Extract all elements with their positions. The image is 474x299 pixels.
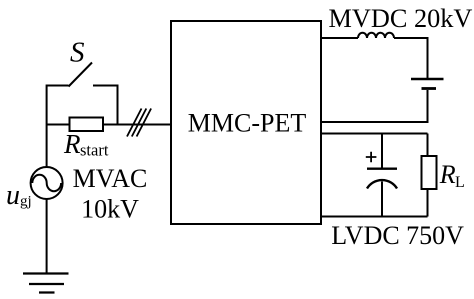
svg-text:MVAC: MVAC (73, 164, 148, 193)
svg-text:L: L (455, 174, 465, 191)
wire: main AC line from source junction to box (47, 124, 171, 126)
three-phase slash marks (127, 109, 151, 137)
svg-text:MMC-PET: MMC-PET (188, 108, 307, 137)
svg-text:R: R (439, 160, 456, 189)
wire: battery to MVDC return (321, 90, 428, 122)
svg-text:start: start (80, 141, 109, 160)
wire: MVDC top from box to inductor (321, 37, 358, 39)
svg-text:u: u (6, 180, 20, 211)
wire: source bottom vertical to ground (46, 199, 48, 274)
resistor R_start (70, 118, 104, 132)
wire: LVDC right vertical lower (427, 189, 429, 217)
wire: LVDC top (321, 133, 428, 135)
battery E1 short plate (422, 87, 437, 90)
wire: LVDC bottom (321, 216, 428, 218)
svg-text:LVDC 750V: LVDC 750V (331, 221, 464, 250)
ground (23, 274, 69, 293)
inductor L1 (358, 33, 394, 38)
svg-text:gj: gj (20, 194, 32, 210)
capacitor C1 flat plate (367, 167, 397, 169)
wire: source top vertical (46, 125, 48, 168)
wire: LVDC right vertical upper (427, 134, 429, 157)
battery E1 long plate (411, 78, 444, 80)
wire: capacitor branch bottom (381, 182, 383, 217)
svg-text:MVDC 20kV: MVDC 20kV (329, 4, 473, 33)
capacitor C1 curved plate (367, 180, 397, 188)
svg-text:R: R (63, 129, 81, 159)
wire: inductor to right corner, down to battery (394, 38, 428, 78)
wire: switch bypass left vertical (47, 86, 69, 125)
wire: switch right contact and vertical (93, 86, 118, 125)
capacitor polarity plus (366, 152, 377, 163)
resistor R_L (422, 156, 437, 189)
wire: capacitor branch top (381, 134, 383, 169)
switch S blade (69, 63, 93, 87)
svg-text:S: S (70, 37, 85, 69)
AC source sine wave (32, 175, 61, 191)
AC source u_gj circle (31, 167, 63, 199)
svg-text:10kV: 10kV (81, 195, 139, 224)
MMC-PET converter box U1 (171, 21, 321, 224)
